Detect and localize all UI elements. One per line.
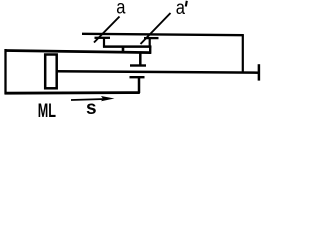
svg-text:a: a bbox=[116, 0, 126, 18]
arrow s bbox=[71, 99, 105, 100]
contact a: stem to bracket bbox=[103, 38, 105, 48]
box ML: left edge bbox=[4, 49, 6, 94]
wire: stub joining bracket and box top line at right end bbox=[149, 46, 151, 54]
svg-text:ML: ML bbox=[38, 101, 56, 122]
box ML: bottom edge bbox=[5, 91, 140, 94]
wire: right vertical drop bbox=[242, 34, 244, 73]
contact a': stem to bracket bbox=[149, 38, 151, 48]
contact a': actuator diagonal bbox=[141, 13, 171, 44]
wire: top rail bbox=[82, 34, 244, 35]
wire: drop to upper fixed plate bbox=[139, 52, 142, 66]
svg-text:s: s bbox=[86, 98, 97, 119]
wire: stub from bracket to box top line bbox=[122, 46, 125, 54]
svg-text:a: a bbox=[176, 0, 186, 19]
upper fixed plate bbox=[130, 64, 146, 66]
wire: piston rod (long horizontal) bbox=[55, 71, 260, 73]
contact a: actuator diagonal bbox=[94, 17, 120, 43]
contact a: plate bbox=[95, 37, 111, 39]
end stop tick bbox=[258, 64, 261, 80]
box ML: top edge extending to contact drop bbox=[5, 51, 152, 53]
wire: bracket joining a and a' bbox=[103, 45, 151, 48]
contact a': plate bbox=[144, 37, 159, 39]
wire: drop from lower plate to box bottom bbox=[138, 78, 141, 94]
piston plate inside box bbox=[45, 55, 57, 89]
lower fixed plate bbox=[130, 76, 145, 78]
